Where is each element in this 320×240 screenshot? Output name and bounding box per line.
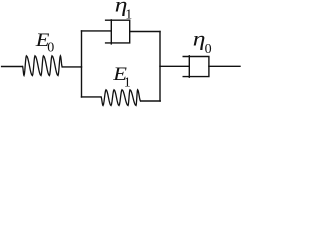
wire bbox=[141, 100, 161, 102]
svg-text:1: 1 bbox=[125, 8, 132, 23]
spring E1 bbox=[101, 90, 141, 106]
label E0 bbox=[35, 30, 55, 56]
dashpot eta1 piston bbox=[110, 20, 112, 44]
wire bbox=[160, 65, 189, 67]
wire bbox=[130, 31, 160, 33]
dashpot eta0 cylinder bbox=[183, 57, 209, 77]
spring E0 bbox=[23, 56, 63, 76]
svg-text:0: 0 bbox=[47, 40, 54, 55]
svg-text:1: 1 bbox=[124, 76, 131, 91]
wire bbox=[209, 65, 240, 67]
dashpot eta1 cylinder bbox=[106, 20, 130, 43]
svg-text:0: 0 bbox=[205, 42, 212, 57]
label eta1 bbox=[115, 0, 133, 23]
wire bbox=[82, 30, 112, 32]
wire bbox=[62, 66, 81, 68]
dashpot eta0 piston bbox=[188, 56, 190, 77]
label E1 bbox=[112, 64, 131, 91]
node: left rail bbox=[81, 31, 83, 97]
svg-text:η: η bbox=[193, 28, 206, 51]
node: right rail bbox=[159, 32, 161, 102]
label eta0 bbox=[193, 28, 212, 58]
wire bbox=[2, 66, 23, 68]
wire bbox=[82, 96, 102, 98]
